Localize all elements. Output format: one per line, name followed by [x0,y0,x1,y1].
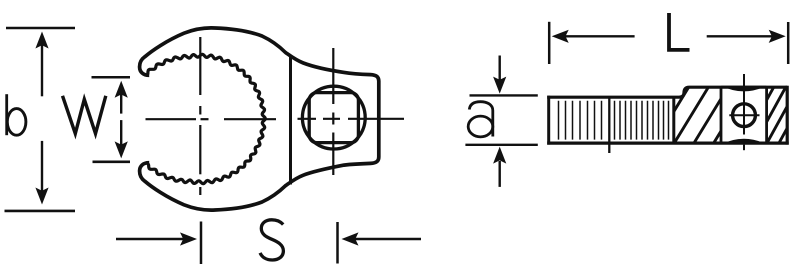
dimension L tick left [548,22,551,64]
label L [669,13,690,50]
shank left edge [547,96,550,145]
dimension a extension line bottom [465,144,537,146]
neck edge line [289,55,292,185]
drive vertical centerline [332,48,334,104]
middle block right boundary [765,87,768,143]
dimension a extension line top [470,94,538,96]
label a [469,102,493,137]
label b [5,94,8,135]
dimension S extension line right [336,222,339,264]
dimension a arrow up [499,161,501,187]
ring vertical centerline [199,37,201,95]
dimension b extension line top [6,27,75,30]
shank top edge with step [547,87,787,97]
pin hole circle [733,104,756,127]
drive bore circle [302,86,365,149]
fine vertical hatching (knurled ring section) [559,101,669,140]
pin hole vertical centerline [743,74,745,135]
ring horizontal centerline [146,118,197,120]
dimension L arrow right-pointing [707,35,772,37]
wrench head outer contour [140,28,379,210]
shank bottom edge [547,142,789,145]
drive horizontal centerline [298,118,317,120]
label S [260,220,283,260]
dimension W extension line bottom [93,161,131,164]
dimension S extension line left [200,222,203,265]
serrated ring profile (teeth) [148,54,266,183]
middle block left boundary [720,87,723,143]
label W [63,96,106,134]
right end edge [786,86,789,145]
dimension W arrow down [120,120,122,145]
dimension b extension line bottom [5,210,76,213]
top lens (drive opening edge) [721,86,767,92]
dimension L tick right [787,22,790,64]
dimension S arrow right-pointing [116,238,185,240]
square drive hole [309,93,358,143]
dimension b arrow down [41,141,43,191]
bottom lens [721,139,767,145]
section boundary line [672,97,675,143]
dimension W arrow up [120,94,122,114]
pin hole horizontal centerline [729,114,759,116]
dimension S arrow left-pointing [354,238,421,240]
dimension W extension line top [92,76,131,79]
dimension b arrow up [41,45,43,96]
dimension a arrow down [499,56,501,81]
dimension L arrow left-pointing [565,35,635,37]
ring centerline mark in side view [608,98,610,154]
